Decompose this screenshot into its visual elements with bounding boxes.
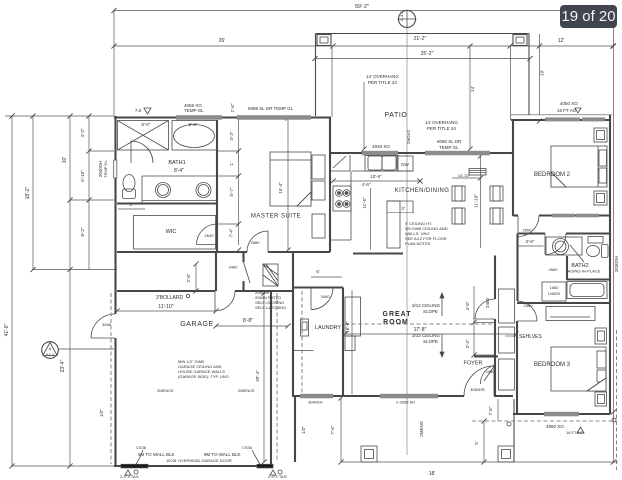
svg-text:11'-10": 11'-10" xyxy=(158,304,173,310)
svg-text:3': 3' xyxy=(401,206,405,211)
svg-text:BATH1: BATH1 xyxy=(168,160,185,166)
svg-text:3'BOLLARD: 3'BOLLARD xyxy=(156,295,183,301)
svg-text:7'-6": 7'-6" xyxy=(488,406,493,415)
svg-text:ROOM: ROOM xyxy=(383,319,409,326)
svg-text:5'-7": 5'-7" xyxy=(229,187,234,196)
svg-text:6080 SL DR: 6080 SL DR xyxy=(437,139,462,144)
svg-text:16 FT AO: 16 FT AO xyxy=(566,430,583,435)
svg-text:3/12 CEILING: 3/12 CEILING xyxy=(412,303,441,308)
svg-text:(GARAGE SIDE), TYP, UNO: (GARAGE SIDE), TYP, UNO xyxy=(178,374,229,379)
svg-text:2MONS: 2MONS xyxy=(406,130,411,145)
svg-text:11'-10": 11'-10" xyxy=(474,194,479,208)
svg-text:2680: 2680 xyxy=(251,240,261,245)
svg-text:TEMP GL: TEMP GL xyxy=(439,145,459,150)
svg-text:14': 14' xyxy=(470,86,475,92)
svg-text:2030SH: 2030SH xyxy=(614,256,619,272)
svg-text:25'-2": 25'-2" xyxy=(421,51,434,57)
svg-text:9M TO WALL BLK: 9M TO WALL BLK xyxy=(138,452,175,457)
svg-text:PER TITLE 24: PER TITLE 24 xyxy=(368,80,397,85)
svg-text:16 FT AO: 16 FT AO xyxy=(557,108,577,113)
svg-text:1': 1' xyxy=(229,162,234,166)
svg-text:21'-2": 21'-2" xyxy=(414,36,427,42)
svg-text:41'-6": 41'-6" xyxy=(4,323,10,336)
svg-text:A: A xyxy=(49,346,52,351)
svg-text:WIC: WIC xyxy=(166,229,177,235)
svg-text:3'-3": 3'-3" xyxy=(229,131,234,140)
svg-text:PER TITLE 24: PER TITLE 24 xyxy=(427,126,456,131)
svg-text:3': 3' xyxy=(129,202,133,207)
svg-text:TEMP GL: TEMP GL xyxy=(184,108,204,113)
svg-text:18'-2": 18'-2" xyxy=(25,186,31,199)
svg-text:GREAT: GREAT xyxy=(383,311,412,318)
svg-text:2480: 2480 xyxy=(229,265,239,270)
svg-text:3/12 CEILING: 3/12 CEILING xyxy=(412,333,441,338)
svg-text:20'-4": 20'-4" xyxy=(255,370,260,382)
svg-text:5'-10": 5'-10" xyxy=(80,170,85,182)
svg-text:3040SH: 3040SH xyxy=(308,400,323,405)
svg-text:3080DR: 3080DR xyxy=(470,387,485,392)
svg-text:2640: 2640 xyxy=(205,233,215,238)
svg-text:26': 26' xyxy=(219,38,226,44)
svg-text:59'-2": 59'-2" xyxy=(355,4,369,10)
svg-text:2680: 2680 xyxy=(524,303,534,308)
svg-text:MASTER SUITE: MASTER SUITE xyxy=(251,214,301,220)
svg-text:3060: 3060 xyxy=(321,294,331,299)
svg-text:2600: 2600 xyxy=(523,228,533,233)
svg-text:BEDROOM 2: BEDROOM 2 xyxy=(534,172,571,178)
svg-text:AGING-IN-PLACE: AGING-IN-PLACE xyxy=(568,269,601,274)
svg-text:4040 XO: 4040 XO xyxy=(372,144,390,149)
svg-text:2680: 2680 xyxy=(549,267,559,272)
svg-text:8'-4": 8'-4" xyxy=(174,168,184,174)
svg-text:SLOPE: SLOPE xyxy=(423,339,438,344)
svg-text:14' OVERHANG: 14' OVERHANG xyxy=(425,120,458,125)
svg-text:10'-6": 10'-6" xyxy=(370,174,382,179)
svg-text:10'-10": 10'-10" xyxy=(458,173,471,178)
svg-text:4950 XO: 4950 XO xyxy=(546,424,564,429)
svg-text:2MENCE: 2MENCE xyxy=(238,388,255,393)
svg-text:6': 6' xyxy=(316,269,320,274)
svg-text:4050 XO: 4050 XO xyxy=(560,101,578,106)
svg-text:FOYER: FOYER xyxy=(464,361,483,367)
svg-text:2MENS: 2MENS xyxy=(419,421,424,437)
svg-text:A4.3: A4.3 xyxy=(46,352,55,357)
svg-text:6'-0": 6'-0" xyxy=(142,122,151,127)
svg-text:3068: 3068 xyxy=(102,322,112,327)
svg-text:14' OVERHANG: 14' OVERHANG xyxy=(366,74,399,79)
svg-text:PLAN NOTES: PLAN NOTES xyxy=(405,241,431,246)
svg-text:KITCHEN/DINING: KITCHEN/DINING xyxy=(395,188,450,194)
svg-text:7'-4": 7'-4" xyxy=(229,228,234,237)
svg-text:1680: 1680 xyxy=(550,285,560,290)
svg-text:CS36: CS36 xyxy=(136,445,147,450)
svg-text:5'-6": 5'-6" xyxy=(189,122,198,127)
svg-text:SELF-LATCHING: SELF-LATCHING xyxy=(255,305,286,310)
svg-text:10': 10' xyxy=(62,157,68,164)
svg-text:CS36: CS36 xyxy=(242,445,253,450)
svg-text:2'-6": 2'-6" xyxy=(230,103,235,112)
svg-text:23'-4": 23'-4" xyxy=(60,359,66,372)
svg-text:15'-4": 15'-4" xyxy=(278,182,283,194)
svg-text:5': 5' xyxy=(474,441,479,445)
svg-text:LINEN: LINEN xyxy=(548,291,560,296)
svg-text:2-3068 SH: 2-3068 SH xyxy=(396,400,415,405)
svg-text:LAUNDRY: LAUNDRY xyxy=(315,325,342,331)
svg-text:BEDROOM 3: BEDROOM 3 xyxy=(534,362,571,368)
svg-text:2'-8": 2'-8" xyxy=(186,273,191,282)
svg-text:7.5: 7.5 xyxy=(135,108,142,113)
svg-text:8'-2": 8'-2" xyxy=(80,227,85,236)
svg-text:SEHLVES: SEHLVES xyxy=(519,334,542,340)
svg-text:11'-6": 11'-6" xyxy=(362,197,367,209)
svg-text:DW: DW xyxy=(401,162,409,167)
svg-text:16'-8": 16'-8" xyxy=(345,321,350,333)
svg-text:2MENCE: 2MENCE xyxy=(157,388,174,393)
svg-text:4'-6": 4'-6" xyxy=(362,182,371,187)
svg-text:1/2": 1/2" xyxy=(99,409,104,417)
svg-text:TEMP GL: TEMP GL xyxy=(103,159,108,177)
svg-text:16'X8' OVERHEAD GARAGE DOOR: 16'X8' OVERHEAD GARAGE DOOR xyxy=(166,458,232,463)
svg-text:10': 10' xyxy=(540,70,545,76)
svg-text:PATIO: PATIO xyxy=(385,112,408,119)
svg-text:7'-6": 7'-6" xyxy=(330,425,335,434)
svg-text:4'-2": 4'-2" xyxy=(80,128,85,137)
svg-text:2480: 2480 xyxy=(485,297,490,308)
svg-text:SLOPE: SLOPE xyxy=(423,309,438,314)
svg-text:1/2": 1/2" xyxy=(301,426,306,434)
svg-text:2480: 2480 xyxy=(486,369,496,374)
svg-text:3'-6": 3'-6" xyxy=(526,239,535,244)
svg-text:GARAGE: GARAGE xyxy=(180,321,214,328)
svg-text:9M TO WALL BLK: 9M TO WALL BLK xyxy=(204,452,241,457)
svg-text:A-4.3: A-4.3 xyxy=(399,11,404,21)
svg-text:8'-8": 8'-8" xyxy=(243,318,253,324)
svg-text:4'-8": 4'-8" xyxy=(465,301,470,310)
svg-text:6088 SL DR TEMP GL: 6088 SL DR TEMP GL xyxy=(248,106,294,111)
svg-text:18': 18' xyxy=(429,471,436,477)
svg-text:3'-4": 3'-4" xyxy=(465,339,470,348)
svg-text:12': 12' xyxy=(558,38,565,44)
